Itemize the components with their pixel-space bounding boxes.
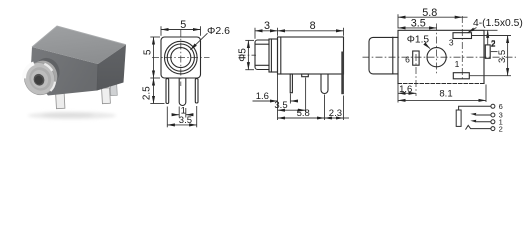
svg-text:2.3: 2.3	[329, 108, 342, 119]
svg-text:3.5: 3.5	[274, 100, 287, 111]
svg-text:4-(1.5x0.5): 4-(1.5x0.5)	[473, 18, 523, 29]
svg-text:5: 5	[143, 49, 154, 55]
svg-text:1.6: 1.6	[399, 84, 412, 95]
svg-text:1: 1	[455, 59, 460, 69]
svg-text:3: 3	[264, 20, 270, 32]
svg-text:6: 6	[499, 102, 503, 111]
svg-text:6: 6	[405, 55, 410, 65]
svg-text:Φ5: Φ5	[238, 48, 249, 62]
svg-text:2: 2	[491, 38, 496, 48]
svg-text:5: 5	[180, 19, 186, 31]
svg-text:8.1: 8.1	[439, 88, 452, 99]
svg-text:3.5: 3.5	[497, 50, 508, 63]
svg-text:3.5: 3.5	[411, 18, 426, 30]
svg-text:3: 3	[449, 37, 454, 47]
svg-text:8: 8	[310, 20, 316, 32]
svg-text:Φ1.5: Φ1.5	[407, 34, 430, 45]
svg-text:Φ2.6: Φ2.6	[207, 25, 230, 37]
svg-text:3.5: 3.5	[179, 115, 192, 126]
svg-text:2.5: 2.5	[142, 86, 153, 100]
svg-text:5.8: 5.8	[297, 108, 310, 119]
svg-text:1.6: 1.6	[256, 91, 269, 102]
svg-text:2: 2	[499, 124, 503, 133]
